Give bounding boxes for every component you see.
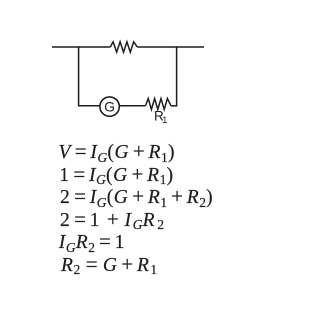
resistor R1 xyxy=(146,99,172,110)
svg-text:G: G xyxy=(104,99,115,115)
equation line 6: R2 = G + R1 xyxy=(61,254,157,277)
resistor R2 (top, unlabeled) xyxy=(110,42,137,52)
equation line 1: V = IG(G + R1) xyxy=(59,141,176,164)
equation line 3: 2 = IG(G + R1 + R2) xyxy=(60,186,213,209)
galvanometer G (circle) xyxy=(100,97,119,116)
circuit schematic xyxy=(0,0,270,140)
equation line 2: 1 = IG(G + R1) xyxy=(59,164,173,187)
wire: top right segment xyxy=(137,46,204,48)
wire: galvanometer to R1 xyxy=(120,105,146,107)
wire: left vertical branch xyxy=(78,46,80,106)
wire: top left segment xyxy=(52,46,110,48)
wire: right vertical branch xyxy=(176,46,178,106)
equation line 5: IGR2 = 1 xyxy=(59,231,125,254)
wire: R1 to right corner xyxy=(171,105,177,107)
equation line 4: 2 = 1 + IGR2 xyxy=(60,209,164,232)
wire: bottom left to galvanometer xyxy=(78,105,100,107)
svg-text:R1: R1 xyxy=(154,109,167,126)
